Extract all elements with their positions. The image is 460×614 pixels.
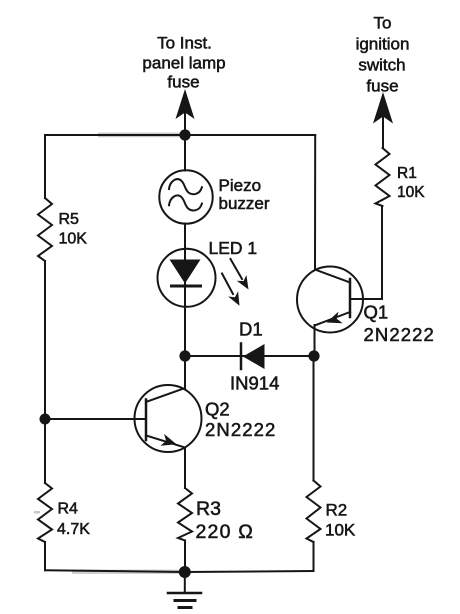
svg-text:fuse: fuse [366,77,398,96]
svg-text:R4: R4 [58,501,79,518]
resistor R4 [38,483,90,542]
svg-text:Piezo: Piezo [219,176,262,195]
wire: D1 horizontal wire [185,355,314,357]
wire: junction down to R2 [313,356,315,481]
svg-text:ignition: ignition [356,35,410,54]
node junction D1 left [179,350,190,361]
transistor Q1 2N2222 [297,267,435,346]
svg-text:buzzer: buzzer [219,194,270,213]
diode D1 IN914 [230,319,279,394]
node junction D1 right [308,350,319,361]
wire: R3 to bottom rail [184,541,186,573]
power arrow to inst. panel lamp fuse [176,89,195,135]
node junction Q2 base on left rail [40,414,51,425]
wire: Q1 emitter down to junction [314,325,316,356]
wire: top horizontal rail [45,134,315,136]
svg-text:220 Ω: 220 Ω [196,521,255,543]
power arrow to ignition switch fuse [373,92,393,148]
svg-text:D1: D1 [239,319,263,340]
svg-text:Q1: Q1 [364,302,389,323]
svg-text:To Inst.: To Inst. [157,34,212,53]
svg-text:R3: R3 [196,498,221,520]
scan speck near left rail [34,511,40,514]
wire: bottom horizontal rail [45,570,314,572]
svg-text:2N2222: 2N2222 [205,419,276,440]
svg-text:10K: 10K [59,231,88,248]
svg-text:2N2222: 2N2222 [364,324,435,345]
wire: left vertical rail bottom [44,542,46,570]
wire: R1 down to Q1 base lead [381,206,383,299]
node: To Inst. panel lamp fuse label [142,34,225,92]
svg-text:4.7K: 4.7K [57,521,90,538]
node junction at top rail [179,129,190,140]
svg-text:10K: 10K [325,521,356,540]
transistor Q2 2N2222 [135,385,277,452]
wire: D1 junction down to Q2 collector [184,356,186,388]
svg-text:switch: switch [358,56,405,75]
LED 1 [158,238,258,307]
svg-text:panel lamp: panel lamp [142,54,225,73]
piezo buzzer [159,170,270,223]
wire: Q2 base lead [45,418,146,420]
LED emission arrow upper [231,259,249,290]
resistor R5 [38,198,87,261]
svg-text:R1: R1 [397,165,417,182]
ground [168,572,201,608]
svg-text:IN914: IN914 [230,373,279,394]
wire: left vertical rail middle [44,261,46,483]
node junction at ground [179,566,191,578]
resistor R1 [376,148,426,206]
scan smudge on top rail [98,133,186,138]
svg-text:R2: R2 [326,501,348,520]
svg-text:LED 1: LED 1 [209,238,258,258]
svg-text:fuse: fuse [167,73,199,92]
wire: top rail right corner down to Q1 collector [314,135,316,270]
scan smudge on bottom rail [72,570,184,574]
LED emission arrow lower [222,274,240,306]
wire: Q2 emitter down to R3 [184,448,186,489]
svg-text:R5: R5 [59,211,80,228]
wire: R2 to bottom rail [313,542,315,571]
wire: buzzer to LED [184,224,186,357]
svg-text:10K: 10K [397,184,425,201]
node: To ignition switch fuse label [356,14,410,96]
resistor R3 [178,488,254,543]
svg-text:Q2: Q2 [205,399,230,420]
resistor R2 [307,481,356,543]
wire: left vertical rail top [44,135,46,198]
wire: center rail from top junction to buzzer [184,135,186,171]
svg-text:To: To [374,14,392,33]
